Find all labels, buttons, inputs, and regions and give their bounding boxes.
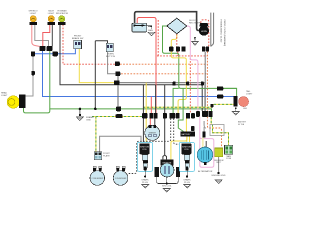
svg-text:SPEEDO: SPEEDO (28, 11, 37, 13)
svg-text:PLUG: PLUG (184, 182, 190, 184)
svg-text:FRONT: FRONT (74, 36, 82, 38)
svg-text:LIGHT: LIGHT (30, 13, 37, 15)
svg-text:SELENIUM: SELENIUM (214, 160, 224, 162)
svg-text:CONDENSER: CONDENSER (92, 178, 104, 180)
svg-text:BUTTON: BUTTON (106, 56, 115, 58)
svg-text:POINT: POINT (103, 153, 110, 155)
svg-text:FUSE: FUSE (226, 158, 232, 160)
svg-text:SILICON: SILICON (189, 20, 198, 22)
svg-text:LIGHT: LIGHT (246, 94, 253, 96)
svg-text:HORN: HORN (201, 31, 207, 33)
svg-text:WINKER: WINKER (149, 133, 157, 135)
svg-text:ENGINE GND: ENGINE GND (212, 175, 226, 177)
svg-text:IGNITION: IGNITION (182, 146, 191, 148)
svg-text:IGN COIL: IGN COIL (162, 186, 172, 188)
svg-text:CONDENSER: CONDENSER (115, 178, 127, 180)
svg-text:HORN: HORN (107, 54, 114, 56)
svg-text:LIGHT: LIGHT (1, 95, 8, 97)
svg-text:PLUG: PLUG (142, 182, 148, 184)
svg-text:LIGHT: LIGHT (48, 13, 55, 15)
svg-text:GND: GND (243, 108, 248, 110)
svg-text:RECTIFIER: RECTIFIER (189, 23, 201, 25)
svg-text:IGNITION: IGNITION (162, 162, 171, 164)
svg-text:IGNITION: IGNITION (140, 146, 149, 148)
svg-text:GND: GND (86, 120, 91, 122)
